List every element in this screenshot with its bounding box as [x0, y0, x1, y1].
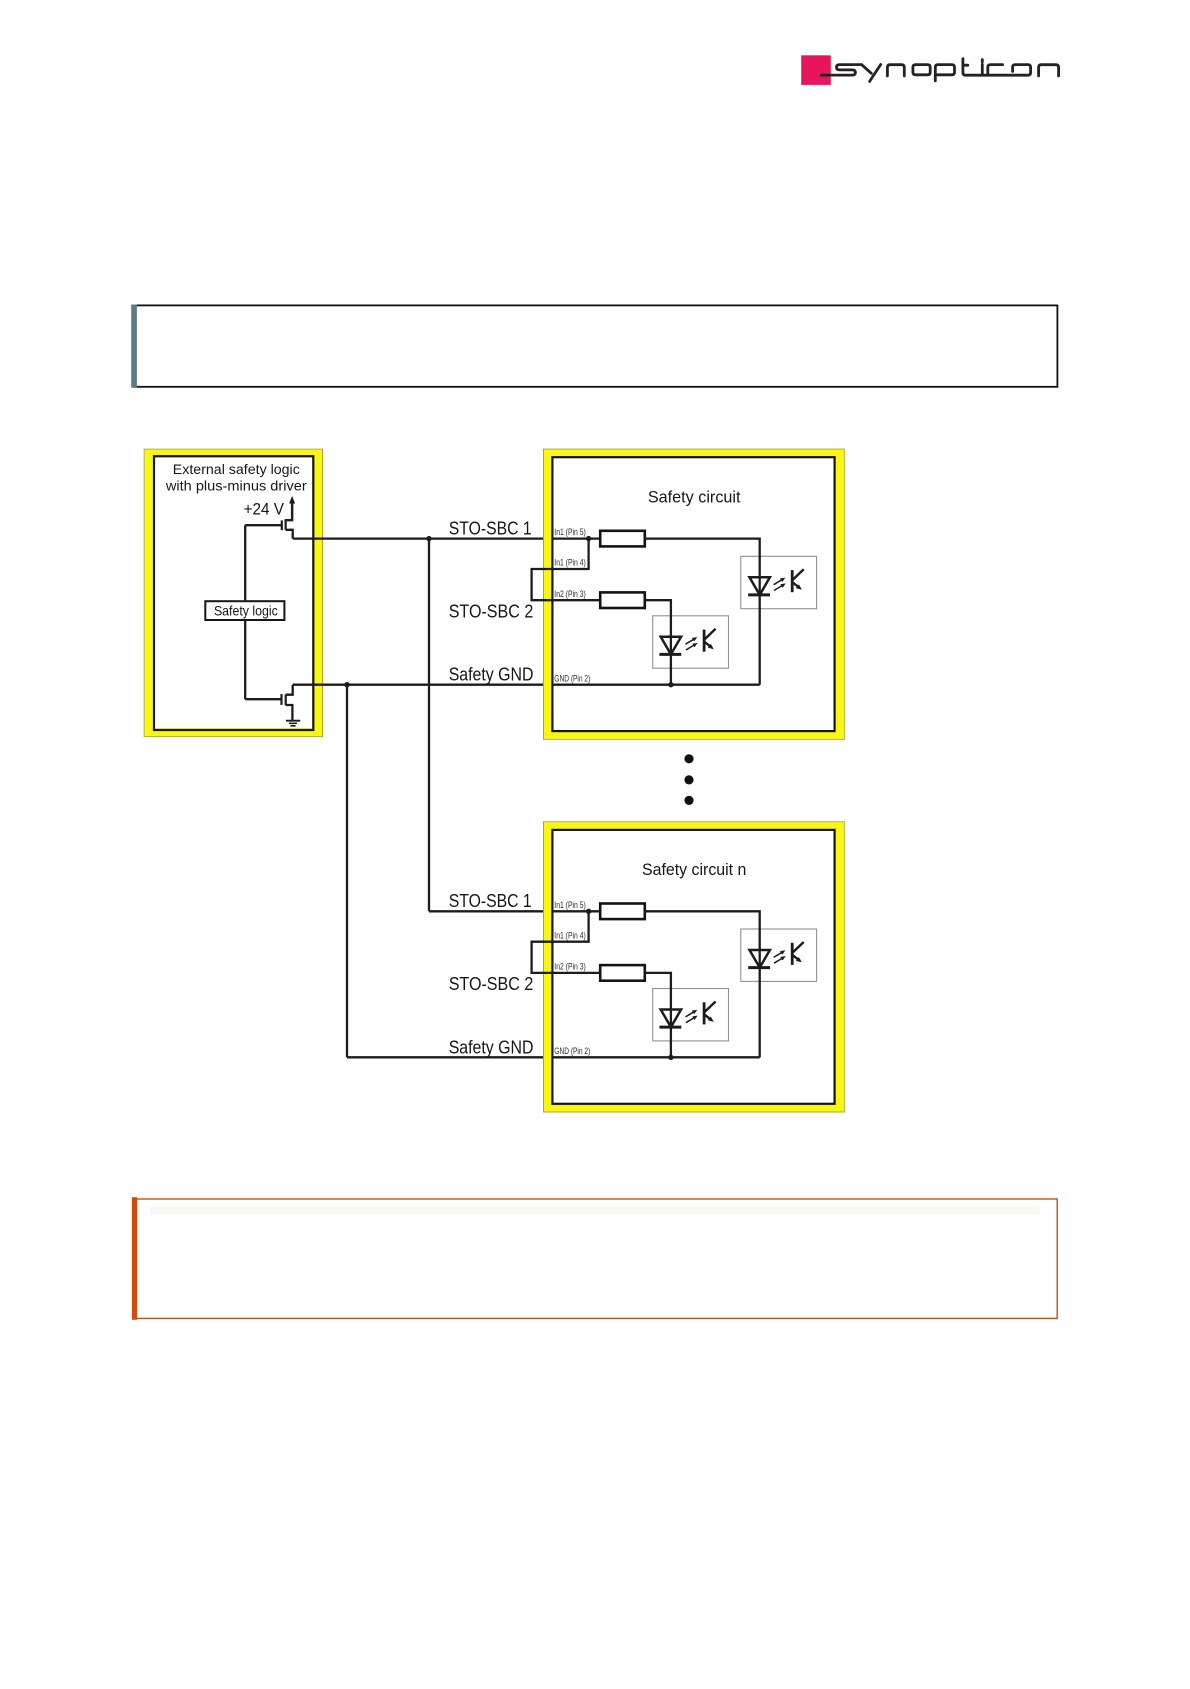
wire Safety GND (top run) — [293, 684, 760, 686]
wire R1 to optocoupler U1 LED to GND circuit 1 — [645, 539, 760, 685]
svg-text:External safety logic: External safety logic — [173, 461, 300, 477]
svg-text:In2 (Pin 3): In2 (Pin 3) — [554, 962, 586, 972]
transistor Q2 connection to ground — [286, 705, 293, 720]
phototransistor of optocoupler U2 circuit n — [703, 1002, 706, 1024]
wire STO-SBC 1 into circuit n — [429, 910, 600, 912]
node: Safety GND trunk junction — [344, 682, 349, 687]
wire Safety GND vertical trunk — [346, 685, 348, 1058]
wire Safety GND into circuit n — [347, 1056, 760, 1058]
wire R2 to optocoupler U2 LED to GND circuit n — [645, 973, 671, 1058]
phototransistor of optocoupler U2 circuit 1 — [703, 630, 706, 652]
resistor R2 circuit n — [600, 965, 645, 981]
optocoupler U2 circuit n box — [653, 989, 729, 1041]
svg-text:with plus-minus driver: with plus-minus driver — [165, 478, 307, 494]
wire In1 Pin5 to Pin4 loop circuit n — [532, 911, 601, 973]
safety circuit n box inner black border — [552, 830, 834, 1104]
note box blue left accent bar — [131, 305, 137, 388]
Synapticon logotype — [821, 59, 1058, 82]
node GND junction circuit n — [668, 1055, 673, 1060]
LED of optocoupler U2 circuit n — [661, 1010, 681, 1028]
svg-text:STO-SBC 1: STO-SBC 1 — [449, 518, 532, 538]
ground symbol — [286, 720, 300, 722]
wire: safety logic to Q2 gate — [244, 620, 246, 699]
optocoupler U2 circuit 1 box — [653, 616, 729, 668]
svg-text:STO-SBC 1: STO-SBC 1 — [449, 891, 532, 911]
svg-text:Safety circuit n: Safety circuit n — [642, 860, 746, 879]
faint redacted text remnant — [150, 1207, 1040, 1215]
wire R2 to optocoupler U2 LED to GND circuit 1 — [645, 600, 671, 685]
note box orange left accent bar — [132, 1197, 137, 1320]
LED of optocoupler U2 circuit 1 — [661, 637, 681, 655]
transistor Q2 (low-side driver) gate wire — [245, 698, 281, 700]
svg-text:In1 (Pin 4): In1 (Pin 4) — [554, 930, 586, 940]
svg-text:Safety logic: Safety logic — [214, 604, 278, 619]
svg-text:Safety GND: Safety GND — [449, 1037, 534, 1057]
optocoupler U1 circuit n box — [741, 929, 817, 981]
light arrows of optocoupler U2 circuit 1 — [686, 639, 695, 645]
wire STO-SBC 1 vertical trunk — [428, 539, 430, 912]
wire In1 Pin5 to Pin4 loop circuit 1 — [532, 539, 601, 601]
node In1 junction circuit n — [586, 909, 591, 914]
transistor Q1 (high-side driver) gate wire — [245, 524, 282, 526]
phototransistor of optocoupler U1 circuit 1 — [791, 570, 794, 592]
node GND junction circuit 1 — [668, 682, 673, 687]
LED of optocoupler U1 circuit n — [750, 950, 770, 968]
svg-text:+24 V: +24 V — [244, 500, 284, 519]
transistor Q2 connection to Safety GND wire — [286, 685, 293, 695]
transistor Q2 gate bar — [280, 694, 282, 705]
node: STO-SBC1 trunk junction — [426, 536, 431, 541]
transistor Q1 source connection to STO-SBC 1 — [286, 530, 293, 539]
light arrows of optocoupler U1 circuit n — [774, 952, 783, 958]
svg-text:In2 (Pin 3): In2 (Pin 3) — [554, 589, 586, 599]
transistor Q1 channel bar — [285, 519, 287, 530]
node In1 junction circuit 1 — [586, 536, 591, 541]
safety circuit 1 box yellow frame — [544, 449, 845, 739]
light arrows of optocoupler U1 circuit 1 — [774, 579, 783, 585]
optocoupler U1 circuit 1 box — [741, 556, 817, 608]
phototransistor of optocoupler U1 circuit n — [791, 943, 794, 965]
svg-text:STO-SBC 2: STO-SBC 2 — [449, 601, 534, 621]
safety circuit 1 box inner black border — [552, 457, 834, 731]
transistor Q1 drain connection to +24V — [286, 503, 293, 520]
svg-text:STO-SBC 2: STO-SBC 2 — [449, 974, 534, 994]
transistor Q1 gate bar — [281, 520, 283, 530]
note box blue border — [134, 305, 1057, 386]
svg-text:In1 (Pin 4): In1 (Pin 4) — [554, 558, 586, 568]
resistor R1 circuit n — [600, 904, 645, 920]
svg-text:In1 (Pin 5): In1 (Pin 5) — [554, 900, 586, 910]
ellipsis dots between safety circuits — [684, 754, 693, 763]
transistor Q2 channel bar — [285, 695, 287, 706]
external safety logic box inner black border — [154, 456, 313, 730]
svg-text:Safety circuit: Safety circuit — [648, 487, 741, 506]
note box orange border — [135, 1199, 1058, 1318]
Synapticon logo pink square — [801, 55, 831, 85]
resistor R2 circuit 1 — [600, 592, 645, 608]
wire STO-SBC 1 (top run) — [293, 537, 601, 539]
wire R1 to optocoupler U1 LED to GND circuit n — [645, 911, 760, 1057]
svg-text:GND (Pin 2): GND (Pin 2) — [554, 1046, 590, 1056]
light arrows of optocoupler U2 circuit n — [686, 1011, 695, 1017]
+24 V supply arrow — [291, 503, 293, 520]
wire: safety logic to Q1 gate — [244, 525, 246, 601]
external safety logic box yellow frame — [144, 449, 322, 736]
svg-text:GND (Pin 2): GND (Pin 2) — [554, 673, 590, 683]
Safety logic block — [205, 601, 284, 620]
safety circuit n box yellow frame — [544, 822, 845, 1112]
svg-text:In1 (Pin 5): In1 (Pin 5) — [554, 527, 586, 537]
svg-text:Safety GND: Safety GND — [449, 665, 534, 685]
LED of optocoupler U1 circuit 1 — [750, 577, 770, 595]
resistor R1 circuit 1 — [600, 531, 645, 547]
